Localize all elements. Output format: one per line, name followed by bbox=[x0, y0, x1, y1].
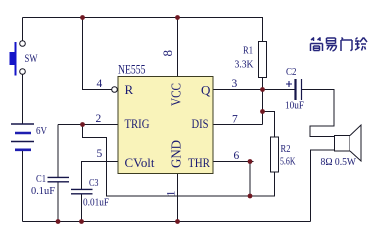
wire pin8 vcc drop bbox=[177, 18, 179, 77]
svg-text:DIS: DIS bbox=[192, 116, 209, 131]
junction thr link bbox=[248, 194, 253, 199]
pin4 reset bubble bbox=[112, 87, 118, 93]
wire switch top drop bbox=[22, 18, 24, 41]
wire battery to ground rail bbox=[22, 150, 24, 222]
wire R1 top lead bbox=[262, 18, 264, 42]
char jian bbox=[311, 38, 321, 42]
title 简易门铃 drawn strokes bbox=[311, 38, 368, 52]
wire C2 right to speaker bbox=[302, 90, 335, 137]
resistor R1 body bbox=[259, 42, 267, 78]
svg-text:VCC: VCC bbox=[169, 83, 184, 106]
switch SW terminals bbox=[20, 41, 26, 75]
svg-text:6: 6 bbox=[234, 150, 240, 162]
svg-text:0.1uF: 0.1uF bbox=[31, 186, 55, 197]
svg-text:5.6K: 5.6K bbox=[280, 157, 296, 168]
junction C3 / ground rail bbox=[79, 219, 84, 224]
wire pin6 thr stub bbox=[213, 161, 254, 163]
svg-text:TRIG: TRIG bbox=[125, 116, 150, 131]
svg-text:10uF: 10uF bbox=[285, 101, 304, 112]
svg-text:C1: C1 bbox=[36, 174, 46, 185]
junction top rail / reset branch bbox=[80, 15, 85, 20]
svg-text:7: 7 bbox=[232, 114, 238, 126]
speaker LS1 cone bbox=[350, 125, 361, 161]
char yi bbox=[327, 38, 336, 44]
junction R1-R2 branch bbox=[260, 109, 265, 114]
svg-text:CVolt: CVolt bbox=[125, 155, 155, 170]
svg-text:C3: C3 bbox=[89, 178, 99, 189]
wire reset pin4 branch bbox=[83, 18, 112, 90]
wire switch bottom to battery bbox=[22, 74, 24, 124]
wire cvolt pin5 bbox=[82, 162, 119, 190]
capacitor C2 plates bbox=[296, 79, 302, 100]
battery B1 6V bbox=[11, 124, 34, 150]
svg-text:2: 2 bbox=[96, 113, 102, 125]
svg-text:8: 8 bbox=[160, 50, 175, 57]
svg-text:0.01uF: 0.01uF bbox=[83, 198, 109, 209]
svg-text:3: 3 bbox=[232, 78, 238, 90]
svg-text:GND: GND bbox=[169, 140, 184, 168]
svg-text:R1: R1 bbox=[243, 45, 253, 57]
svg-text:R2: R2 bbox=[281, 143, 291, 155]
resistor R2 body bbox=[271, 137, 279, 172]
wire pin3 output bbox=[213, 89, 295, 91]
svg-text:SW: SW bbox=[25, 51, 38, 65]
junction pin1 / ground rail bbox=[175, 219, 180, 224]
wire trig to thr link bbox=[83, 125, 275, 197]
C2 plus sign bbox=[286, 81, 292, 87]
wire C1 top bbox=[57, 125, 59, 178]
IC U1 NE555 body bbox=[118, 77, 213, 174]
wire thr down branch bbox=[249, 162, 251, 197]
svg-text:5: 5 bbox=[97, 148, 103, 160]
wire R2 top branch bbox=[263, 112, 275, 138]
junction C1 / ground rail bbox=[56, 219, 61, 224]
capacitor C1 plates bbox=[48, 177, 70, 181]
wire C3 bottom bbox=[81, 194, 83, 222]
wire R1 bottom lead to pin7 bbox=[262, 78, 264, 125]
svg-text:3.3K: 3.3K bbox=[235, 59, 254, 71]
wire C1 bottom bbox=[57, 182, 59, 222]
junction top rail / pin8 bbox=[175, 15, 180, 20]
wire pin1 gnd drop bbox=[177, 174, 179, 222]
svg-text:THR: THR bbox=[188, 155, 210, 170]
capacitor C3 plates bbox=[71, 189, 93, 193]
wire bottom ground rail bbox=[23, 221, 311, 223]
junction pin3 / R1 bbox=[260, 87, 265, 92]
switch SW actuator bbox=[10, 42, 17, 76]
svg-text:1: 1 bbox=[164, 191, 178, 197]
junction trig node bbox=[80, 122, 85, 127]
char ling bbox=[355, 38, 360, 51]
wire pin7 dis bbox=[213, 124, 263, 126]
char men bbox=[341, 38, 352, 52]
svg-text:C2: C2 bbox=[286, 66, 297, 78]
svg-text:NE555: NE555 bbox=[118, 62, 146, 77]
junction thr pin6 bbox=[248, 159, 253, 164]
speaker LS1 box bbox=[335, 136, 351, 152]
svg-text:8Ω 0.5W: 8Ω 0.5W bbox=[321, 157, 357, 168]
svg-text:6V: 6V bbox=[36, 126, 47, 137]
svg-text:4: 4 bbox=[97, 78, 103, 90]
svg-text:R: R bbox=[125, 82, 134, 97]
wire speaker lower terminal bbox=[311, 150, 335, 222]
svg-text:Q: Q bbox=[201, 83, 211, 98]
wire top rail bbox=[23, 17, 264, 19]
wire trig pin2 bbox=[58, 124, 118, 126]
